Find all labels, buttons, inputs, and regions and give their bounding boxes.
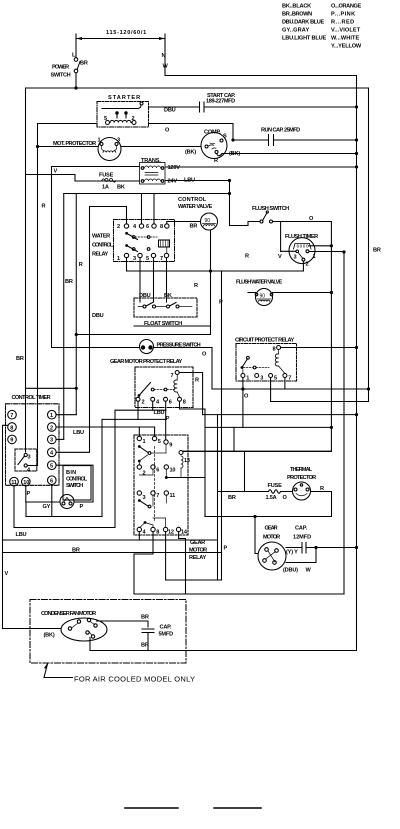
- svg-text:RUN CAP. 25MFD: RUN CAP. 25MFD: [261, 128, 300, 134]
- junction bus gm: [355, 546, 358, 549]
- svg-text:10: 10: [170, 468, 176, 474]
- svg-text:3: 3: [50, 438, 53, 444]
- V long wire: [51, 167, 53, 348]
- float under box line: [134, 325, 211, 327]
- svg-text:BR: BR: [16, 356, 24, 362]
- svg-text:Y...YELLOW: Y...YELLOW: [331, 44, 362, 50]
- svg-text:P: P: [27, 491, 31, 497]
- svg-text:4: 4: [133, 224, 137, 230]
- svg-text:BK..BLACK: BK..BLACK: [282, 4, 311, 10]
- fwv left stub: [248, 292, 256, 294]
- svg-text:POWER: POWER: [52, 65, 69, 71]
- svg-text:2: 2: [117, 224, 120, 230]
- relay pin14 down: [179, 532, 186, 594]
- control timer: [6, 395, 60, 486]
- connector x234: [233, 427, 235, 451]
- run cap wire: [233, 139, 357, 141]
- svg-text:P: P: [219, 300, 223, 306]
- junction 334: [75, 333, 78, 336]
- junction cap: [314, 546, 317, 549]
- svg-text:PROTECTOR: PROTECTOR: [287, 475, 316, 481]
- junction bus 107: [355, 105, 358, 108]
- svg-text:3: 3: [28, 455, 31, 461]
- svg-text:LBU: LBU: [154, 410, 165, 416]
- svg-text:1: 1: [50, 413, 53, 419]
- svg-text:GEAR MOTOR PROTECT RELAY: GEAR MOTOR PROTECT RELAY: [110, 359, 182, 365]
- svg-text:5: 5: [50, 464, 53, 470]
- mot protector wire: [38, 146, 99, 148]
- svg-text:11: 11: [170, 493, 176, 499]
- svg-text:120V: 120V: [168, 165, 181, 171]
- svg-text:8: 8: [10, 425, 13, 431]
- svg-text:R: R: [194, 283, 198, 289]
- junction valve bottom: [209, 269, 212, 272]
- svg-text:O: O: [283, 495, 288, 501]
- junction 389: [241, 387, 244, 390]
- junction fwv: [330, 291, 333, 294]
- svg-text:2: 2: [50, 425, 53, 431]
- main top bus: [26, 87, 369, 89]
- junction mot prot: [36, 145, 39, 148]
- flush timer pin1 wire: [309, 251, 344, 254]
- cam switch: [15, 449, 37, 474]
- valve left wire: [167, 222, 201, 224]
- capacitor 12mfd: [302, 543, 306, 554]
- svg-text:6000: 6000: [297, 244, 309, 249]
- wire x115: [114, 410, 116, 527]
- svg-text:1A: 1A: [102, 185, 109, 191]
- wire y334: [76, 334, 210, 336]
- svg-text:(DBU): (DBU): [283, 568, 298, 574]
- wire x217: [217, 415, 219, 580]
- wire y414: [203, 414, 357, 416]
- wire y388: [26, 387, 77, 389]
- ct pin8 left wire: [3, 425, 8, 628]
- cpr pin5 wire: [271, 378, 369, 402]
- footer mark 2: [214, 807, 261, 809]
- svg-text:3: 3: [260, 376, 263, 382]
- valve bottom wire: [210, 230, 212, 335]
- svg-text:6: 6: [146, 224, 149, 230]
- svg-text:LBU: LBU: [73, 430, 84, 436]
- svg-text:V: V: [5, 571, 9, 577]
- svg-text:O: O: [202, 352, 207, 358]
- cpr pin7 wire: [284, 378, 286, 390]
- wire y527 LBU: [14, 527, 115, 529]
- gmpr pin6 wire: [165, 401, 167, 440]
- svg-text:W...WHITE: W...WHITE: [331, 36, 359, 42]
- svg-text:LBU.LIGHT BLUE: LBU.LIGHT BLUE: [282, 36, 326, 42]
- relay pin1 stub: [138, 427, 140, 436]
- wire y554: [134, 554, 153, 594]
- svg-text:3: 3: [133, 256, 136, 262]
- svg-text:1: 1: [117, 256, 120, 262]
- compressor COMP: [201, 130, 227, 165]
- wire y427 right segment: [205, 426, 331, 428]
- flush timer coil wire: [309, 245, 331, 247]
- fan top wire BR: [97, 621, 149, 627]
- fan left wire: [3, 628, 62, 630]
- wire y540: [3, 539, 218, 541]
- wire top fuse feed: [26, 175, 76, 182]
- junction 193: [228, 192, 231, 195]
- svg-text:9: 9: [169, 443, 172, 449]
- svg-text:R: R: [79, 262, 83, 268]
- junction bus 140: [355, 138, 358, 141]
- svg-text:CONDENSER FAN MOTOR: CONDENSER FAN MOTOR: [41, 611, 96, 617]
- thermal protector: [287, 467, 324, 500]
- wire y580: [166, 579, 222, 581]
- cpr pin1 wire O: [242, 378, 244, 428]
- wire y410: [115, 409, 166, 411]
- svg-text:12MFD: 12MFD: [293, 535, 311, 541]
- wire y389: [212, 388, 369, 390]
- svg-text:R: R: [195, 378, 199, 384]
- svg-text:5: 5: [158, 439, 161, 445]
- svg-text:1.5A: 1.5A: [266, 495, 277, 501]
- svg-text:3: 3: [294, 255, 297, 261]
- junction power switch: [74, 86, 77, 89]
- pressure wire left: [52, 347, 140, 349]
- 120V wire: [52, 166, 357, 169]
- svg-text:LBU: LBU: [16, 532, 27, 538]
- wire 24v drop: [229, 181, 231, 194]
- wire y594: [134, 593, 344, 595]
- relay pin4 down: [138, 532, 140, 540]
- svg-text:(BK): (BK): [185, 150, 196, 156]
- wire starter left to left vert: [38, 123, 98, 125]
- gmpr pin8 wire: [180, 401, 206, 409]
- svg-text:24V: 24V: [168, 179, 178, 185]
- svg-text:BR..BROWN: BR..BROWN: [282, 12, 312, 18]
- svg-text:GY: GY: [43, 504, 51, 510]
- svg-text:90: 90: [205, 218, 211, 224]
- svg-text:2: 2: [306, 262, 309, 268]
- svg-text:DBU: DBU: [164, 108, 176, 114]
- water control relay: [92, 220, 175, 263]
- gear motor relay block: [134, 435, 188, 536]
- flush water valve: [236, 280, 282, 306]
- svg-text:6: 6: [169, 400, 172, 406]
- wire x205: [204, 409, 206, 517]
- svg-text:CONTROL: CONTROL: [92, 243, 114, 249]
- junction 388: [75, 387, 78, 390]
- svg-text:9: 9: [10, 438, 13, 444]
- P line long: [221, 271, 223, 580]
- junction cpr: [355, 346, 358, 349]
- svg-text:4: 4: [50, 451, 54, 457]
- svg-text:13: 13: [184, 458, 190, 464]
- svg-text:(BK): (BK): [229, 151, 240, 157]
- coil13 wire right: [183, 450, 331, 452]
- svg-text:5MFD: 5MFD: [159, 632, 174, 638]
- svg-text:7: 7: [288, 376, 291, 382]
- relay coil 13: [179, 451, 190, 478]
- svg-text:CONTROL: CONTROL: [178, 197, 207, 203]
- svg-text:P: P: [224, 546, 228, 552]
- svg-text:STARTER: STARTER: [108, 95, 140, 101]
- float switch: [134, 298, 197, 327]
- svg-text:RELAY: RELAY: [92, 252, 108, 258]
- connector x244: [244, 451, 246, 491]
- ct pin3 wire: [56, 438, 64, 440]
- thermal wire right: [311, 492, 332, 517]
- relay bottom wires: [126, 258, 128, 271]
- svg-text:CONTROL: CONTROL: [66, 477, 88, 483]
- svg-text:BR: BR: [228, 495, 236, 501]
- wire y552: [3, 552, 222, 554]
- svg-text:CIRCUIT PROTECT RELAY: CIRCUIT PROTECT RELAY: [235, 338, 294, 344]
- svg-text:BR: BR: [65, 279, 73, 285]
- svg-text:R: R: [42, 204, 46, 210]
- svg-text:DBU: DBU: [92, 313, 104, 319]
- svg-text:BR: BR: [190, 224, 198, 230]
- junction 255: [253, 515, 256, 518]
- fuse F1: [75, 173, 139, 191]
- svg-text:BR: BR: [141, 615, 149, 621]
- left bus wire: [25, 88, 27, 452]
- svg-text:3: 3: [143, 495, 146, 501]
- svg-text:7: 7: [156, 493, 159, 499]
- svg-text:7: 7: [160, 256, 163, 262]
- svg-text:GY..GRAY: GY..GRAY: [282, 28, 309, 34]
- svg-text:TRANS.: TRANS.: [141, 158, 161, 164]
- flush switch feed: [230, 194, 261, 226]
- svg-text:8: 8: [183, 400, 186, 406]
- svg-text:R...RED: R...RED: [331, 20, 354, 26]
- svg-text:DBU.DARK BLUE: DBU.DARK BLUE: [282, 20, 324, 26]
- svg-text:(BK): (BK): [44, 633, 55, 639]
- ct pin4 wire: [56, 451, 89, 453]
- svg-text:115-120/60/1: 115-120/60/1: [106, 30, 146, 36]
- svg-text:O: O: [165, 128, 170, 134]
- wire y477: [166, 477, 205, 479]
- svg-text:MOTOR: MOTOR: [263, 535, 280, 541]
- wire y516 right: [205, 516, 332, 518]
- thermal wire left: [218, 491, 293, 493]
- fuse 1.5A: [266, 483, 288, 501]
- svg-text:GEAR: GEAR: [190, 540, 205, 546]
- svg-text:1: 1: [143, 439, 146, 445]
- wire x102: [101, 419, 103, 516]
- svg-text:6: 6: [156, 468, 159, 474]
- bus x331 end left: [183, 450, 331, 452]
- wire y516: [26, 516, 102, 518]
- svg-text:MOT. PROTECTOR: MOT. PROTECTOR: [53, 141, 96, 147]
- svg-text:FLUSH WATER VALVE: FLUSH WATER VALVE: [236, 280, 282, 286]
- junction 344: [342, 250, 345, 253]
- gear motor: [258, 526, 286, 571]
- svg-text:7: 7: [171, 373, 174, 379]
- svg-text:(Y) Y: (Y) Y: [286, 550, 298, 556]
- junction right end: [367, 387, 370, 390]
- start cap wire: [149, 106, 357, 108]
- svg-text:FLUSH TIMER: FLUSH TIMER: [285, 234, 318, 240]
- svg-text:R: R: [245, 254, 249, 260]
- 24V wire: [166, 180, 230, 182]
- svg-text:S: S: [223, 134, 227, 140]
- gmpr pin4 wire: [152, 401, 154, 410]
- flush timer pin3 wire: [281, 250, 296, 252]
- svg-text:SWITCH: SWITCH: [66, 483, 83, 489]
- svg-text:P: P: [80, 504, 84, 510]
- junction 427: [330, 426, 333, 429]
- ct pin1 wire: [56, 414, 76, 416]
- flush timer pin2 wire: [302, 261, 304, 271]
- svg-text:R: R: [214, 158, 218, 164]
- svg-text:WATER VALVE: WATER VALVE: [178, 204, 212, 210]
- fan motor: [44, 618, 108, 641]
- control water valve: [178, 197, 218, 230]
- svg-text:THERMAL: THERMAL: [290, 467, 313, 473]
- svg-text:V: V: [278, 254, 282, 260]
- ct pin10 wire: [25, 486, 27, 502]
- capacitor 5mfd: [142, 629, 154, 633]
- svg-text:11: 11: [11, 480, 17, 486]
- junction y414: [355, 413, 358, 416]
- ct pin11 wire: [13, 486, 15, 528]
- junction bus 153: [355, 152, 358, 155]
- flush switch: [252, 206, 289, 223]
- svg-text:O: O: [244, 394, 249, 400]
- legend color code: [282, 4, 362, 50]
- cam wire 4: [27, 465, 37, 467]
- power switch S1: [51, 48, 81, 88]
- svg-text:2: 2: [142, 400, 145, 406]
- ct pin5 wire: [56, 465, 93, 502]
- svg-text:12: 12: [168, 530, 174, 536]
- svg-text:BK: BK: [117, 185, 125, 191]
- svg-text:SWITCH: SWITCH: [51, 73, 71, 79]
- svg-text:90: 90: [260, 294, 266, 300]
- svg-text:FUSE: FUSE: [268, 483, 283, 489]
- water relay feed wires: [141, 194, 143, 224]
- svg-text:10: 10: [23, 480, 29, 486]
- svg-text:W: W: [306, 568, 312, 574]
- GY wire: [26, 501, 60, 503]
- svg-text:189-227MFD: 189-227MFD: [206, 99, 235, 105]
- flush timer: [285, 234, 318, 268]
- svg-text:V...VIOLET: V...VIOLET: [331, 28, 361, 34]
- svg-text:6: 6: [50, 479, 53, 485]
- motor protector: [53, 138, 121, 161]
- svg-text:GEAR: GEAR: [265, 526, 278, 532]
- svg-text:FUSE: FUSE: [99, 173, 114, 179]
- wire y271: [127, 270, 304, 272]
- junction S: [231, 138, 234, 141]
- svg-text:8: 8: [160, 224, 163, 230]
- flush O wire: [273, 221, 332, 223]
- left verticals: [89, 207, 91, 452]
- wire N to right bus: [165, 39, 357, 76]
- svg-text:1: 1: [246, 376, 249, 382]
- cap loop: [286, 548, 316, 563]
- wire bin down: [25, 502, 27, 517]
- svg-text:CAP.: CAP.: [295, 526, 308, 532]
- svg-text:2: 2: [143, 471, 146, 477]
- gmpr pin2 wire: [137, 401, 139, 419]
- svg-text:1: 1: [313, 254, 316, 260]
- right bus BR wire: [368, 88, 370, 402]
- GEAR MOTOR RELAY label: [189, 540, 207, 561]
- svg-text:4: 4: [156, 400, 160, 406]
- svg-text:P...PINK: P...PINK: [331, 12, 355, 18]
- fan bottom wire: [90, 638, 357, 651]
- svg-text:CAP.: CAP.: [160, 625, 172, 631]
- svg-text:8: 8: [156, 530, 159, 536]
- svg-text:V: V: [54, 169, 58, 175]
- wire y419: [102, 418, 166, 420]
- bus x331: [330, 222, 332, 452]
- wire protector to comp: [121, 146, 201, 148]
- svg-text:5: 5: [274, 376, 277, 382]
- svg-text:7: 7: [10, 413, 13, 419]
- relay pin12 down: [165, 532, 167, 580]
- junction 477: [165, 476, 168, 479]
- wire 24v bus: [64, 193, 230, 195]
- svg-text:O...ORANGE: O...ORANGE: [331, 4, 361, 10]
- comp R wire: [217, 154, 357, 156]
- svg-text:5: 5: [146, 256, 149, 262]
- svg-text:WATER: WATER: [92, 234, 110, 240]
- gm right wire: [286, 547, 357, 549]
- left vert to cam: [37, 124, 39, 466]
- relay pin8 down: [152, 532, 154, 554]
- bin control switch: [63, 466, 91, 500]
- leader arrow: [44, 663, 195, 684]
- bin switch symbol: [60, 495, 74, 509]
- condenser fan motor box: [30, 600, 186, 664]
- junction bus 167: [355, 165, 358, 168]
- svg-text:BIN: BIN: [66, 470, 76, 476]
- transformer TRANS: [140, 158, 181, 185]
- start capacitor: [200, 93, 236, 112]
- bin right wire P: [74, 501, 93, 503]
- pressure wire right O: [154, 348, 213, 390]
- supply label 115-120/60/1: [76, 30, 165, 48]
- run capacitor: [261, 128, 300, 146]
- svg-text:CONTROL TIMER: CONTROL TIMER: [12, 395, 51, 401]
- svg-text:FOR AIR COOLED MODEL ONLY: FOR AIR COOLED MODEL ONLY: [74, 675, 195, 684]
- gear motor feed: [255, 517, 258, 554]
- cap bottom lead: [147, 633, 149, 651]
- junction coil: [330, 244, 333, 247]
- gmpr pin7 right wire: [179, 373, 202, 415]
- svg-text:P: P: [166, 416, 170, 422]
- right bus wire x356: [356, 76, 358, 651]
- pressure switch: [140, 340, 201, 354]
- svg-text:FLUSH SWITCH: FLUSH SWITCH: [252, 206, 289, 212]
- svg-text:8: 8: [273, 347, 276, 353]
- gear motor protect relay: [110, 359, 193, 408]
- circuit protect relay: [235, 338, 297, 382]
- wire starter right O: [149, 124, 234, 141]
- svg-text:BR: BR: [80, 61, 88, 67]
- fwv right wire: [273, 292, 332, 294]
- cpr pin8 wire: [281, 347, 357, 349]
- V wire flush: [280, 222, 282, 252]
- footer mark 1: [125, 807, 178, 809]
- svg-text:RELAY: RELAY: [189, 555, 206, 561]
- starter: [97, 95, 149, 127]
- bus x344: [343, 252, 345, 594]
- junction 24v: [228, 179, 231, 182]
- svg-text:BR: BR: [373, 248, 381, 254]
- ct pin2 wire LBU: [56, 427, 155, 436]
- ct pin6 wire: [51, 485, 53, 517]
- svg-text:BR: BR: [141, 643, 149, 649]
